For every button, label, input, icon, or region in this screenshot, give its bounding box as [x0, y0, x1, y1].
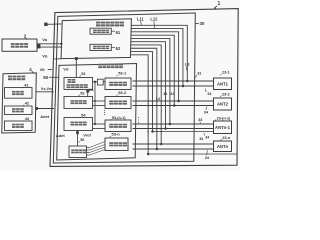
connector square on box 2 output	[37, 44, 41, 49]
antenna feeder wire R2 upper	[133, 100, 214, 102]
oscillator box 61	[90, 28, 111, 34]
bus wire L1-4 from signal processor with vertical drop	[131, 35, 174, 105]
wire Vb	[37, 46, 61, 48]
svg-text:31: 31	[197, 71, 201, 75]
svg-text:ANTn: ANTn	[217, 144, 229, 149]
box 62 kanji text	[93, 46, 97, 47]
svg-text:54: 54	[81, 113, 86, 118]
svg-text:53-(n-1): 53-(n-1)	[112, 116, 126, 120]
svg-text:Adet: Adet	[40, 114, 50, 119]
signal processing circuit group box (top)	[61, 19, 131, 59]
fan wire 1 to detector 53-n	[90, 142, 106, 148]
svg-text:61: 61	[116, 30, 121, 35]
internal circuit stub 2	[87, 149, 90, 151]
svg-text:Va: Va	[89, 87, 94, 92]
box 53-n kanji text	[109, 142, 113, 144]
junction square on Vd wire	[75, 57, 78, 60]
wire Vd stub from box 30 edge	[54, 58, 61, 60]
wire Vd drop into check circuit	[75, 59, 77, 77]
antenna feeder wire R3 upper	[133, 123, 214, 125]
antenna box ANTn-1	[214, 121, 232, 134]
svg-text:23-(n-1): 23-(n-1)	[217, 116, 231, 120]
internal circuit stub 3	[87, 152, 90, 154]
svg-text:L11: L11	[137, 17, 145, 22]
device box 1 (outer enclosure)	[50, 9, 238, 167]
fan wire 2 to detector 53-n	[90, 145, 106, 151]
svg-text:Vref: Vref	[83, 132, 91, 137]
divider box 54	[64, 118, 93, 131]
box 54 kanji text	[71, 122, 75, 124]
svg-text:51: 51	[81, 71, 86, 76]
box 53-1 kanji text	[109, 82, 113, 84]
antenna feeder wire R4 upper	[133, 143, 214, 145]
svg-text:60: 60	[40, 67, 45, 72]
power terminal box 52	[64, 97, 93, 109]
device group box 4 (left)	[2, 73, 37, 133]
box 41 kanji text	[12, 91, 16, 93]
svg-text:1: 1	[218, 1, 221, 7]
wire box54 to detector 53-(n-1) upper	[93, 123, 106, 125]
detector circuit box 53-n	[105, 138, 128, 151]
detector circuit box 53-1	[105, 78, 131, 90]
sub-box 41	[5, 88, 33, 99]
svg-text:Vx,Vxx: Vx,Vxx	[41, 87, 54, 91]
svg-text:53-1: 53-1	[118, 71, 127, 76]
svg-text:62: 62	[116, 46, 121, 51]
box 2 kanji text	[11, 43, 15, 45]
node: Va/Vb junction dots	[60, 43, 62, 45]
box 53-2 kanji text	[109, 101, 113, 103]
sub-box 43	[5, 121, 33, 131]
sub-box 42	[5, 106, 33, 115]
antenna feeder wire R1 upper	[133, 80, 214, 82]
circuit block box 30	[53, 13, 195, 163]
bus wire L1-7 from signal processor with vertical drop	[131, 45, 161, 144]
svg-text:56: 56	[80, 138, 84, 142]
wire box51 to box52	[87, 90, 89, 97]
transmitter box 62	[90, 44, 111, 50]
antenna feeder wire R3 lower	[133, 128, 214, 130]
junction square on group 4 edge	[35, 107, 38, 110]
svg-text:52: 52	[80, 90, 85, 95]
signal processing circuit title kanji	[96, 22, 100, 24]
wire box54 to detector 53-(n-1) lower	[93, 128, 106, 130]
antenna box ANT2	[214, 98, 232, 110]
svg-text:23-n: 23-n	[222, 136, 230, 140]
antenna box ANTn	[214, 141, 232, 152]
bus wire L1-6 from signal processor with vertical drop	[131, 42, 166, 129]
svg-text:53-2: 53-2	[118, 90, 127, 95]
wire box52 to detector 53-2 upper	[93, 100, 106, 102]
svg-text:L12: L12	[150, 17, 158, 22]
box 53-(n-1) kanji text	[109, 124, 113, 126]
svg-text:Vb: Vb	[42, 53, 48, 58]
junction square below box 54	[76, 131, 79, 134]
box 56 kanji text	[71, 149, 75, 151]
svg-text:L2: L2	[156, 97, 160, 101]
vertical ellipsis in wire area	[138, 117, 139, 118]
wire Va	[37, 43, 61, 45]
box 51 kanji line2	[67, 84, 71, 86]
box 43 kanji text	[12, 124, 16, 126]
antenna feeder wire R1 lower	[133, 85, 214, 87]
fan wire 4 to detector 53-n	[90, 150, 106, 156]
wire box54 down to internal circuit	[77, 131, 79, 147]
coupling element square	[97, 79, 103, 85]
unit module box 2	[2, 39, 37, 51]
wire-break check circuit group box 50	[57, 64, 137, 161]
detector circuit box 53-(n-1)	[105, 120, 131, 132]
wire square to detector 53-1	[103, 81, 105, 83]
box 61 kanji text	[93, 30, 97, 31]
bus wire L1-2 from signal processor with vertical drop	[131, 29, 183, 86]
svg-text:50: 50	[43, 75, 48, 80]
svg-text:ANT1: ANT1	[217, 81, 229, 86]
antenna feeder wire R4 lower	[133, 148, 214, 150]
extra wire to ANTn-1 lower	[153, 131, 214, 133]
wire Vx,Vxx from group 4	[36, 91, 54, 93]
svg-text:23-2: 23-2	[222, 92, 230, 96]
input terminal square top-left	[44, 23, 47, 26]
svg-text:33: 33	[199, 137, 203, 141]
junction square between box 51 and 52	[86, 90, 89, 93]
wire Va vertical inside check circuit	[94, 82, 96, 124]
svg-text:Adet: Adet	[56, 133, 66, 138]
wire Adet from group 4	[37, 108, 55, 110]
wire box51 to coupling square	[93, 81, 98, 83]
check circuit group title kanji	[98, 64, 102, 66]
bus wire L1-10 from signal processor with vertical drop	[131, 55, 148, 154]
internal circuit box 56	[69, 146, 87, 158]
svg-text:31: 31	[163, 92, 167, 96]
box 42 kanji text	[12, 108, 16, 110]
svg-text:ANTn-1: ANTn-1	[215, 125, 231, 130]
svg-text:53-n: 53-n	[112, 132, 121, 137]
wire box52 to detector 53-2 lower	[93, 105, 106, 107]
antenna box ANT1	[214, 78, 232, 90]
vertical ellipsis between detectors	[104, 110, 105, 111]
svg-text:L3: L3	[185, 63, 189, 67]
fan wire 3 to detector 53-n	[90, 147, 106, 153]
svg-text:ANT2: ANT2	[217, 102, 229, 107]
box 52 kanji text	[71, 100, 75, 102]
group 4 title kanji	[8, 76, 12, 78]
svg-text:33: 33	[198, 118, 202, 122]
internal circuit stub 4	[87, 154, 90, 156]
antenna feeder wire R2 lower	[133, 105, 214, 107]
input wire into signal processor	[48, 23, 62, 25]
bus wire L1-3 from signal processor with vertical drop	[131, 32, 179, 101]
svg-text:30: 30	[200, 21, 205, 26]
svg-text:34: 34	[205, 136, 209, 140]
bus wire L1-1 from signal processor with vertical drop	[131, 25, 187, 81]
internal circuit stub 1	[87, 147, 90, 149]
detector circuit box 53-2	[105, 97, 131, 109]
bus wire L1-9 from signal processor with vertical drop	[131, 52, 153, 132]
bus wire L1-8 from signal processor with vertical drop	[131, 48, 157, 149]
svg-text:Va: Va	[42, 37, 47, 42]
bus wire L1-5 from signal processor with vertical drop	[131, 38, 170, 124]
bottom wire to outer box edge	[148, 153, 237, 155]
svg-text:Vd: Vd	[63, 66, 69, 71]
check power supply box 51	[64, 78, 93, 90]
svg-text:23-1: 23-1	[222, 71, 230, 75]
box 51 kanji line1	[68, 79, 72, 81]
